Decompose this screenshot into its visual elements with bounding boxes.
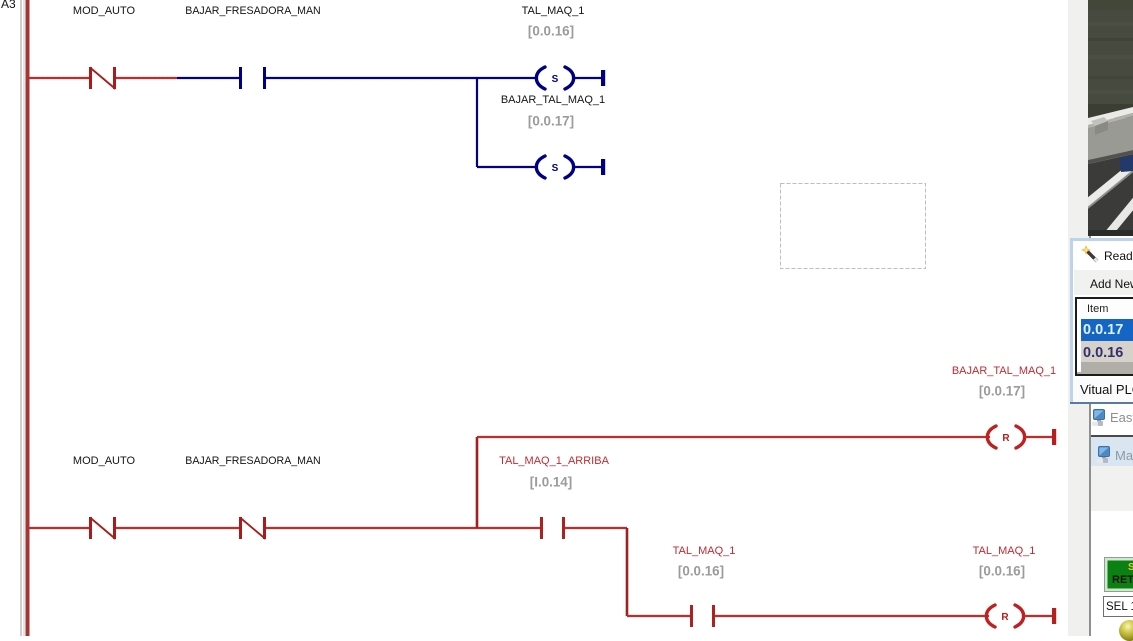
selection marquee (dashed rectangle) <box>781 184 926 269</box>
label TAL_MAQ_1 (rung 2 lower contact) <box>673 545 736 557</box>
rung 2: NC contact BAJAR_FRESADORA_MAN <box>240 517 266 539</box>
tree separator <box>1091 435 1133 437</box>
rung 1: wire MOD_AUTO to colour change (energized red) <box>116 77 177 79</box>
right gutter strip <box>1068 0 1090 636</box>
rung 2: wire between NC contacts <box>116 527 239 529</box>
right panel vertical divider <box>1089 0 1091 636</box>
magic wand icon <box>1081 245 1101 265</box>
rung 2: wire contact to corner <box>565 527 627 529</box>
tree lower shade <box>1091 466 1133 511</box>
Read / Add New popup window <box>1070 238 1133 404</box>
rung 1 branch: wire to second set coil <box>477 166 537 168</box>
rung 2: wire from rail to MOD_AUTO contact <box>29 527 89 529</box>
rung 2 upper branch: wire to reset coil <box>477 436 990 438</box>
rung 2 lower branch: wire coil to terminal <box>1024 615 1052 617</box>
rung 2: branch junction vertical wire up <box>476 437 479 528</box>
rung 1: set coil (S) TAL_MAQ_1 [0.0.16] <box>536 67 573 89</box>
label BAJAR_FRESADORA_MAN (rung 2) <box>185 455 320 467</box>
rung 1: branch junction vertical wire <box>476 78 478 167</box>
address [0.0.16] (rung 2 lower reset coil) <box>979 564 1025 579</box>
rung 1: NC contact MOD_AUTO <box>90 67 116 89</box>
rung 1: right terminal bar <box>601 70 605 86</box>
rung 2 upper branch: right terminal bar <box>1052 429 1056 445</box>
SEL 1 textbox <box>1103 596 1133 617</box>
rung 2 lower branch: wire to reset coil <box>715 615 989 617</box>
label TAL_MAQ_1_ARRIBA (rung 2 contact) <box>499 455 609 467</box>
rung 2 lower branch: reset coil (R) TAL_MAQ_1 [0.0.16] <box>986 605 1023 627</box>
svg-text:R: R <box>1002 433 1010 444</box>
rung 2 lower branch: right terminal bar <box>1052 608 1056 624</box>
rung 1: NO contact BAJAR_FRESADORA_MAN <box>241 67 265 89</box>
label MOD_AUTO (rung 2) <box>73 455 135 467</box>
label TAL_MAQ_1 (rung 2 lower reset coil) <box>973 545 1036 557</box>
address [0.0.16] (rung 1 set coil) <box>528 24 574 39</box>
address [0.0.17] (rung 2 reset coil) <box>979 384 1025 399</box>
rung 1: wire colour change to BAJAR_FRESADORA_MAN contact (navy) <box>177 77 239 79</box>
rung 2: NO contact TAL_MAQ_1_ARRIBA <box>542 517 564 539</box>
address [0.0.16] (rung 2 lower contact) <box>678 564 724 579</box>
left power rail <box>26 0 30 636</box>
tree row: Ma (selected) <box>1091 437 1133 467</box>
address [0.0.17] (rung 1 branch coil) <box>528 114 574 129</box>
rung 2 lower branch: wire to TAL_MAQ_1 contact <box>627 615 690 617</box>
right tree panel background <box>1091 404 1133 636</box>
rung 1 branch: right terminal bar <box>601 159 605 175</box>
label BAJAR_TAL_MAQ_1 (rung 2 reset coil) <box>952 365 1056 377</box>
popup row: Read/Write <box>1104 249 1133 263</box>
svg-text:R: R <box>1001 612 1009 623</box>
rung 2: NC contact MOD_AUTO <box>90 517 116 539</box>
rung 2: wire to branch junction <box>266 527 540 529</box>
rung 2 upper branch: wire coil to terminal <box>1025 436 1052 438</box>
rung 2 lower branch: NO contact TAL_MAQ_1 <box>692 605 714 627</box>
popup footer: Vitual PLC <box>1073 378 1133 402</box>
tree row: Easy <box>1092 409 1106 426</box>
svg-text:S: S <box>552 74 559 85</box>
rung 1: wire from rail to MOD_AUTO contact <box>29 77 89 79</box>
popup row: Add New <box>1074 270 1133 295</box>
table row 0.0.16 <box>1081 341 1133 362</box>
rung 1 branch: set coil (S) BAJAR_TAL_MAQ_1 [0.0.17] <box>536 156 573 178</box>
rung 2: corner wire down to lower branch <box>626 528 629 616</box>
table row 0.0.17 (selected) <box>1081 319 1133 341</box>
svg-text:S: S <box>552 163 559 174</box>
yellow indicator ball <box>1119 620 1133 641</box>
address [I.0.14] (rung 2 contact) <box>530 475 572 490</box>
label BAJAR_FRESADORA_MAN (rung 1) <box>185 5 320 17</box>
rung 1 branch: wire coil to terminal <box>574 166 601 168</box>
rung 1: wire coil to terminal <box>574 77 601 79</box>
label TAL_MAQ_1 (rung 1 set coil) <box>522 5 585 17</box>
label MOD_AUTO (rung 1) <box>73 5 135 17</box>
popup item table <box>1075 297 1133 376</box>
green button (RETROCEDER) <box>1104 557 1133 592</box>
rung 1: wire contact to set coil <box>266 77 537 79</box>
rung 2 upper branch: reset coil (R) BAJAR_TAL_MAQ_1 [0.0.17] <box>987 426 1024 448</box>
label BAJAR_TAL_MAQ_1 (rung 1 branch coil) <box>501 94 605 106</box>
webcam photo (top right) <box>1088 0 1133 236</box>
network id text (top-left, clipped) <box>1 0 16 11</box>
